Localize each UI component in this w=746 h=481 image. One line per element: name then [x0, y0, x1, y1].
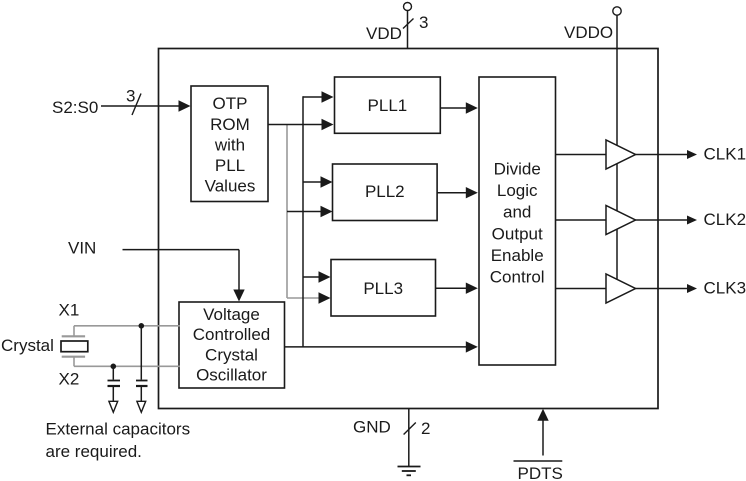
bus slash S2:S0: [132, 94, 141, 116]
wire CLK1 output: [636, 154, 689, 156]
wire clock bus to PLL2: [303, 181, 322, 183]
arrowhead PLL3 into divide logic: [466, 283, 478, 294]
wire CLK3 output: [636, 288, 689, 290]
wire divide logic to CLK2 buffer: [556, 219, 607, 221]
wire value bus to PLL2: [287, 211, 322, 213]
capacitor C2 ground lead: [140, 387, 142, 401]
arrowhead CLK1: [687, 150, 697, 159]
wire CLK2 output: [636, 219, 689, 221]
svg-text:S2:S0: S2:S0: [52, 98, 98, 117]
wire divide logic to CLK1 buffer: [556, 154, 607, 156]
svg-text:CLK1: CLK1: [704, 144, 746, 163]
wire VCXO clock bus vertical: [302, 96, 304, 347]
chip boundary U1: [159, 49, 659, 409]
svg-text:PLL1: PLL1: [368, 96, 408, 115]
arrowhead into PLL2 upper input: [321, 176, 333, 187]
output buffer CLK1: [606, 140, 636, 169]
bus slash VDD: [403, 19, 414, 29]
arrowhead into PLL3 upper input: [319, 271, 331, 282]
svg-text:Control: Control: [490, 268, 545, 287]
ground arrow C1: [109, 401, 118, 412]
svg-text:Enable: Enable: [491, 246, 544, 265]
arrowhead CLK3: [687, 284, 697, 293]
svg-text:and: and: [503, 203, 531, 222]
svg-text:3: 3: [419, 13, 428, 32]
svg-text:GND: GND: [353, 418, 391, 437]
svg-text:2: 2: [421, 419, 430, 438]
wire GND pin: [408, 409, 410, 467]
svg-text:PLL2: PLL2: [365, 182, 405, 201]
VCXO block: [179, 302, 285, 388]
wire PLL1 output to divide logic: [440, 107, 468, 109]
PDTS overline: [514, 460, 563, 462]
svg-text:VDD: VDD: [366, 24, 402, 43]
arrowhead PLL1 into divide logic: [466, 102, 478, 113]
wire PLL3 output to divide logic: [436, 287, 469, 289]
svg-text:Crystal: Crystal: [205, 345, 258, 364]
arrowhead PDTS: [537, 409, 548, 421]
wire value bus to PLL3 (gray): [287, 297, 321, 299]
svg-text:PLL: PLL: [215, 156, 245, 175]
svg-text:CLK2: CLK2: [704, 210, 746, 229]
capacitor C2 bottom plate: [136, 385, 148, 387]
svg-text:ROM: ROM: [210, 115, 250, 134]
junction dot X2 node: [111, 364, 117, 370]
svg-text:VDDO: VDDO: [564, 23, 613, 42]
wire divide logic to CLK3 buffer: [556, 288, 607, 290]
capacitor C2 lead from X1: [140, 326, 142, 380]
wire VIN vertical into VCXO: [238, 250, 240, 292]
PLL2 block: [333, 164, 438, 221]
svg-text:Divide: Divide: [494, 160, 541, 179]
wire X1 (gray): [74, 325, 180, 327]
svg-text:External capacitors: External capacitors: [46, 420, 191, 439]
svg-text:VIN: VIN: [68, 239, 96, 258]
svg-text:X1: X1: [59, 300, 80, 319]
svg-text:Crystal: Crystal: [1, 336, 54, 355]
crystal Y1 top stub: [73, 326, 75, 336]
arrowhead into OTP ROM: [179, 100, 191, 111]
junction dot X1 node: [139, 323, 145, 329]
arrowhead CLK2: [687, 216, 697, 225]
wire X2 (gray): [74, 365, 180, 367]
svg-text:PLL3: PLL3: [363, 279, 403, 298]
PLL1 block: [335, 77, 441, 133]
wire VDD to chip top: [407, 11, 409, 49]
PLL3 block: [331, 260, 436, 317]
svg-text:X2: X2: [59, 369, 80, 388]
VDD pin circle: [404, 3, 412, 11]
arrowhead into PLL2 lower input: [321, 206, 333, 217]
capacitor C1 ground lead: [112, 387, 114, 401]
wire clock bus to PLL1: [303, 96, 323, 98]
output buffer CLK3: [606, 274, 636, 303]
arrowhead PLL2 into divide logic: [466, 187, 478, 198]
crystal Y1 bottom stub: [73, 357, 75, 366]
wire gray value bus vertical: [286, 125, 288, 299]
OTP ROM block: [191, 86, 268, 202]
capacitor C1 lead from X2: [112, 366, 114, 379]
ground symbol: [398, 467, 421, 476]
arrowhead into PLL1 lower input: [322, 119, 334, 130]
svg-text:Values: Values: [205, 177, 256, 196]
wire PLL2 output to divide logic: [437, 192, 468, 194]
VDDO pin circle: [613, 7, 621, 15]
svg-text:CLK3: CLK3: [704, 278, 746, 297]
arrowhead VIN into VCXO: [233, 290, 244, 302]
svg-text:Controlled: Controlled: [193, 325, 271, 344]
capacitor C1 top plate: [108, 380, 121, 382]
crystal Y1 body: [61, 341, 88, 352]
arrowhead into PLL3 lower input: [319, 292, 331, 303]
svg-text:Output: Output: [492, 224, 543, 243]
svg-text:3: 3: [126, 87, 135, 106]
bus slash GND: [404, 423, 416, 435]
svg-text:PDTS: PDTS: [518, 464, 563, 481]
capacitor C2 top plate: [136, 380, 148, 382]
svg-text:with: with: [214, 135, 245, 154]
wire clock bus to PLL3: [303, 276, 320, 278]
svg-text:Logic: Logic: [497, 181, 538, 200]
arrowhead into divide logic bottom input: [466, 341, 478, 352]
svg-text:OTP: OTP: [213, 94, 248, 113]
ground arrow C2: [137, 401, 146, 412]
svg-text:Voltage: Voltage: [203, 305, 260, 324]
wire VIN horizontal: [123, 249, 240, 251]
wire VDDO rail: [616, 15, 618, 289]
wire VCXO output to divide logic: [284, 346, 468, 348]
svg-text:Oscillator: Oscillator: [196, 366, 267, 385]
svg-text:are required.: are required.: [46, 442, 142, 461]
wire OTP ROM to PLL1 (value bus): [268, 124, 323, 126]
wire PDTS into chip: [542, 420, 544, 456]
wire S2:S0 to OTP ROM: [101, 105, 180, 107]
crystal Y1 top plate: [62, 335, 85, 337]
divide logic block: [479, 77, 556, 365]
arrowhead into PLL1 upper input: [322, 91, 334, 102]
capacitor C1 bottom plate: [108, 385, 121, 387]
crystal Y1 bottom plate: [62, 356, 85, 358]
output buffer CLK2: [606, 206, 636, 235]
